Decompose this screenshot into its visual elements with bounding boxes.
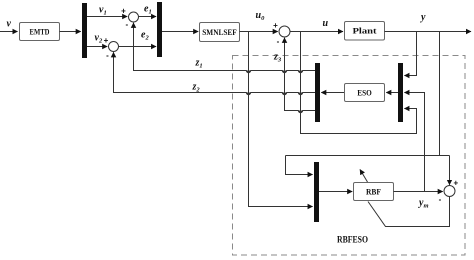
- svg-text:SMNLSEF: SMNLSEF: [202, 28, 237, 37]
- wire y into summer S4: [449, 156, 451, 185]
- svg-text:z3: z3: [273, 52, 282, 64]
- wire z2: [114, 53, 316, 95]
- wire v input: [0, 31, 18, 33]
- svg-text:e2: e2: [141, 30, 149, 42]
- block SMNLSEF: [200, 23, 240, 42]
- block EMTD: [20, 23, 60, 41]
- wire u to Plant: [290, 31, 343, 33]
- svg-text:z1: z1: [195, 58, 203, 70]
- wire y distribution horizontal: [286, 155, 450, 157]
- wire v1: [87, 16, 127, 18]
- wire bar4 to ESO: [386, 92, 398, 94]
- bar3 ESO output distribution bar: [315, 63, 320, 122]
- wire bar2 to SMNLSEF: [162, 31, 198, 33]
- svg-text:+: +: [104, 36, 109, 45]
- svg-text:+: +: [453, 179, 458, 188]
- svg-text:v: v: [7, 19, 12, 30]
- wire z1 arrowhead: [133, 23, 135, 26]
- bar5 RBF input bar: [314, 162, 319, 222]
- block ESO: [345, 84, 385, 102]
- wire u tap down across and up into bar4: [301, 32, 417, 134]
- svg-text:e1: e1: [144, 4, 152, 16]
- svg-text:u0: u0: [256, 10, 266, 22]
- svg-text:u: u: [323, 18, 329, 29]
- wire v2: [87, 46, 107, 48]
- svg-text:+: +: [121, 7, 126, 16]
- wire z3: [285, 39, 316, 113]
- svg-text:v1: v1: [99, 5, 107, 17]
- wire ym up into bar4: [404, 93, 424, 192]
- summer S3: [279, 26, 290, 37]
- wire ym to summer S4: [394, 191, 443, 193]
- svg-text:+: +: [273, 21, 278, 30]
- block Plant: [345, 22, 385, 41]
- svg-text:ym: ym: [418, 198, 429, 210]
- summer S2: [109, 42, 119, 52]
- wire z1: [134, 24, 316, 73]
- wire y output: [385, 31, 472, 33]
- wire e2: [119, 46, 157, 48]
- svg-text:RBFESO: RBFESO: [337, 236, 368, 246]
- wire y tap2 down: [439, 32, 441, 156]
- wire bar5 to RBF: [319, 191, 352, 193]
- svg-text:-: -: [439, 195, 442, 204]
- wire error feedback to RBF: [368, 197, 450, 227]
- wire e1: [139, 16, 157, 18]
- bar1 branch bar: [82, 3, 87, 58]
- wire u0 tap down to bar5: [249, 32, 313, 207]
- wire z2 arrowhead: [113, 52, 115, 55]
- bar4 ESO input bar: [398, 63, 403, 122]
- wire u0: [240, 31, 278, 33]
- summer S1: [129, 12, 139, 22]
- wire EMTD to bar1: [60, 31, 81, 33]
- svg-text:y: y: [420, 12, 426, 23]
- svg-text:RBF: RBF: [366, 188, 381, 197]
- svg-text:-: -: [277, 37, 280, 46]
- dashed boundary RBFESO: [233, 56, 466, 256]
- svg-text:z2: z2: [192, 82, 201, 94]
- svg-text:ESO: ESO: [357, 89, 372, 98]
- wire ESO to bar3: [321, 92, 344, 94]
- svg-text:Plant: Plant: [353, 27, 377, 36]
- svg-text:EMTD: EMTD: [30, 28, 50, 37]
- svg-text:-: -: [106, 51, 109, 60]
- wire y into bar5: [286, 156, 313, 175]
- block RBF: [354, 183, 394, 201]
- svg-text:-: -: [125, 20, 128, 29]
- bar2 error bar: [157, 2, 162, 57]
- svg-text:v2: v2: [95, 33, 103, 45]
- summer S4: [444, 186, 455, 197]
- wire RBF adaptation arrow: [360, 170, 368, 183]
- wire z3 arrowhead: [284, 38, 286, 41]
- wire y tap1 into bar4: [404, 32, 416, 76]
